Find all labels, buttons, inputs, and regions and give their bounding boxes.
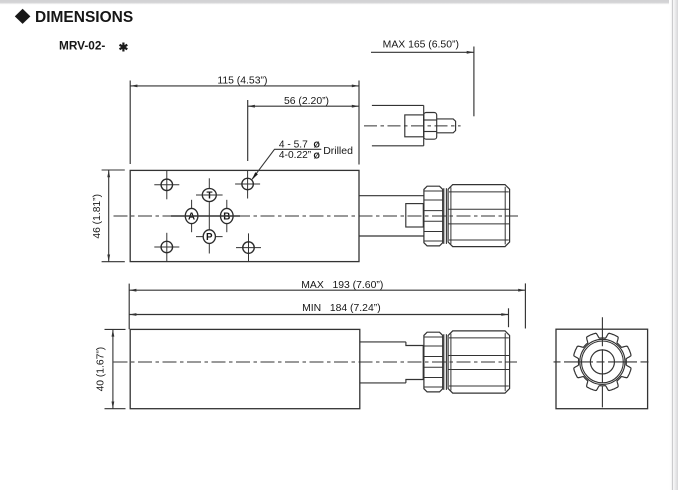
port A vertical [191, 200, 193, 232]
main centerline (side view) [114, 361, 518, 363]
arrow MAX193 left [129, 289, 136, 292]
knob ridges (side view) [449, 337, 509, 339]
detail tube top line [372, 104, 424, 106]
svg-text:MRV-02-: MRV-02- [59, 38, 105, 52]
ring ridges (top view) [424, 190, 443, 192]
svg-text:B: B [223, 212, 230, 223]
svg-text:T: T [207, 191, 213, 202]
svg-text:40 (1.67”): 40 (1.67”) [95, 347, 106, 392]
detail screw shaft [437, 119, 456, 133]
svg-text:MAX 193 (7.60”): MAX 193 (7.60”) [301, 280, 383, 291]
stem step bottom (side view) [406, 380, 424, 383]
dim 40 arrow down [112, 402, 115, 409]
ring ridges (side view) [424, 336, 443, 338]
arrow MAX165 [467, 51, 474, 54]
svg-text:MAX 165 (6.50”): MAX 165 (6.50”) [383, 40, 459, 51]
dim line MAX193 [129, 289, 525, 291]
dim line 56 [248, 105, 359, 107]
svg-text:A: A [188, 212, 195, 223]
detail centerline [364, 125, 461, 127]
port P circle [203, 230, 215, 244]
dim line MAX165 [371, 51, 474, 53]
leader line to hole [252, 149, 274, 179]
knob chamfer verticals (side view) [450, 334, 452, 391]
dim 115 extension line left [129, 81, 131, 165]
detail hex nut [424, 113, 437, 140]
stem step top (side view) [406, 342, 424, 346]
dim line MIN184 [129, 314, 508, 316]
end view body outline [556, 329, 648, 409]
svg-text:4-0.22”: 4-0.22” [279, 150, 312, 161]
port A circle [185, 208, 198, 223]
arrow 115 left [130, 85, 137, 88]
dim 40 line [112, 329, 114, 408]
arrow 115 right [352, 85, 359, 88]
stem top line (top view) [359, 195, 424, 197]
dim 46 arrow down [107, 255, 110, 262]
knob (top view) [448, 185, 510, 247]
end view knurled knob outline [574, 333, 631, 390]
knob chamfer verticals (top view) [450, 187, 452, 244]
dim line 115 [130, 85, 359, 87]
dim 46 line [108, 170, 110, 261]
stem bottom line (top view) [359, 235, 424, 237]
knob (side view) [448, 331, 510, 393]
body outline (top view) [130, 170, 359, 261]
svg-text:MIN 184 (7.24”): MIN 184 (7.24”) [302, 303, 381, 314]
dim 115/56 extension line right [358, 81, 360, 165]
end view vertical centerline [601, 317, 603, 407]
body outline (side view) [130, 329, 360, 408]
dim 40 bottom tick [105, 408, 126, 410]
port B vertical [226, 200, 228, 232]
dim 56 extension line left [247, 100, 249, 161]
port P crosshair [196, 236, 223, 238]
detail hex facet bottom [424, 131, 437, 133]
groove (side view) [444, 334, 447, 390]
T-P vertical line [208, 178, 210, 253]
end view outer circle [580, 339, 625, 384]
dim ext line left (shared) [128, 284, 130, 330]
port B circle [221, 208, 234, 223]
arrow MIN184 left [129, 313, 136, 316]
hole TL [161, 179, 173, 191]
dim MAX165 extension line [473, 47, 475, 117]
hole TR [242, 178, 254, 190]
knob ridges (top view) [449, 191, 509, 193]
hole BR crosshair [236, 247, 261, 249]
arrow MAX193 right [518, 289, 525, 292]
right edge line [671, 0, 673, 490]
ring collar (top view) [424, 186, 443, 246]
right gray band [669, 0, 678, 490]
ring collar (side view) [424, 332, 443, 392]
stem step rect (top view) [406, 204, 424, 227]
star symbol [120, 43, 128, 52]
stem wide bottom (side view) [360, 382, 406, 384]
svg-text:46 (1.81”): 46 (1.81”) [92, 194, 103, 239]
title diamond [15, 9, 31, 24]
arrow MIN184 right [501, 313, 508, 316]
svg-text:DIMENSIONS: DIMENSIONS [35, 9, 133, 26]
port T circle [202, 189, 216, 202]
svg-text:Ø: Ø [314, 151, 321, 160]
detail tube bottom line [372, 145, 424, 147]
arrow 56 left [248, 105, 255, 108]
detail hex facet top [424, 119, 437, 121]
svg-text:P: P [206, 232, 213, 243]
end view horizontal centerline [554, 361, 654, 363]
detail tube end edge [423, 105, 425, 145]
detail locknut [405, 115, 424, 137]
svg-text:115 (4.53”): 115 (4.53”) [217, 75, 267, 86]
stem wide top (side view) [360, 341, 406, 343]
leader arrowhead [252, 172, 258, 180]
arrow 56 right [352, 105, 359, 108]
main centerline (top view) [114, 215, 519, 217]
svg-text:Ø: Ø [314, 141, 321, 150]
top gray band [0, 0, 678, 5]
hole TR crosshair [235, 183, 260, 185]
hole BL crosshair [154, 246, 179, 248]
solid centerline through A-B [171, 215, 240, 217]
port T crosshair [196, 194, 223, 196]
stem end edge (side view) [422, 346, 424, 380]
end view shaft circle [590, 350, 614, 374]
svg-text:Drilled: Drilled [323, 145, 353, 157]
dim 46 arrow up [107, 170, 110, 177]
dim ext MIN184 right [508, 308, 510, 327]
dim 40 arrow up [112, 329, 115, 336]
dim 40 top tick [105, 328, 126, 330]
dim 46 bottom tick [102, 261, 125, 263]
hole BR [243, 242, 255, 254]
hole TL crosshair [154, 184, 179, 186]
end view inner rim circle [582, 341, 624, 383]
dim ext MAX193 right [524, 283, 526, 328]
dim 46 top tick [102, 169, 125, 171]
drilled label fraction bar [274, 148, 321, 150]
groove (top view) [444, 188, 447, 244]
hole BL [161, 241, 173, 253]
svg-text:56 (2.20”): 56 (2.20”) [284, 96, 329, 107]
